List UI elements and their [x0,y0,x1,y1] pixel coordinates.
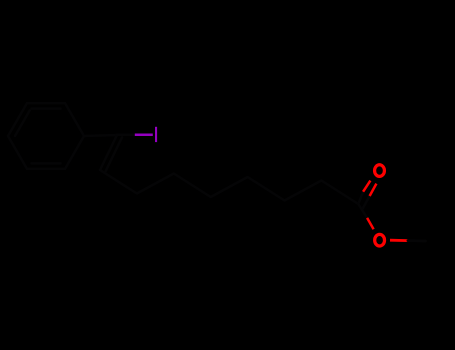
atom label O (carbonyl oxygen) [375,165,385,177]
bond O-CH3 methyl half (dark) [408,239,426,242]
double bond C9=O oxygen halves (red) [363,181,376,196]
double bond C9=O carbon halves (dark) [358,192,369,209]
wire: bond ring-C1 [84,135,117,136]
double bond C1=C2 [100,135,122,172]
bond C9-O carbon half (dark) [358,204,367,218]
bond C1-I iodine half [135,134,153,137]
benzene ring C10-C15 (phenyl) [8,103,84,169]
atom label O (ester oxygen) [375,234,385,246]
bond O-CH3 oxygen half (red) [390,239,408,242]
bond C9-O oxygen half (red) [367,218,374,229]
bond C1-I carbon half (dark) [117,134,135,137]
atom label I (iodine) [155,127,157,142]
wire: chain C2-C3-C4-C5-C6-C7-C8-C9 [100,170,358,204]
